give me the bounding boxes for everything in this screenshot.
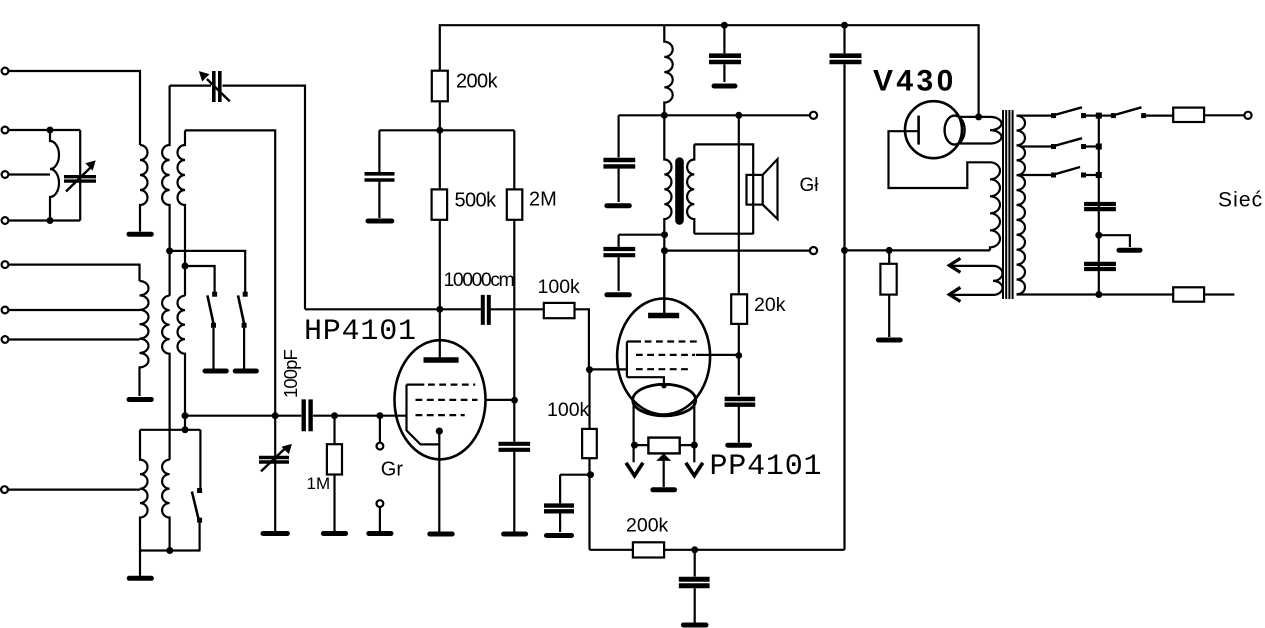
- ground G1 below T1 primary: [129, 232, 151, 237]
- HP anode bar: [424, 357, 459, 362]
- terminal A5: [2, 261, 9, 268]
- wire CV1 vertical: [79, 130, 81, 221]
- terminal output low: [810, 247, 817, 254]
- capacitor C11 plates: [1084, 264, 1116, 269]
- mains bottom wire: [1017, 293, 1235, 295]
- ground G3: [129, 576, 151, 581]
- node B+ rail / C3: [841, 22, 848, 29]
- switch S4 contact: [1081, 173, 1086, 178]
- resistor 20k R7: [731, 294, 747, 324]
- HP grid row2 dashes: [416, 399, 478, 401]
- wire screen row: [379, 129, 514, 131]
- filament arrow right: [686, 463, 703, 476]
- svg-text:Sieć: Sieć: [1218, 189, 1263, 212]
- switch S3 blade: [1054, 138, 1082, 146]
- speaker driver box: [747, 175, 763, 205]
- node grid terminal: [376, 412, 383, 419]
- wire A1 to IF primary top: [9, 71, 140, 145]
- transformer core (3 lines): [1003, 110, 1013, 299]
- svg-text:1M: 1M: [307, 474, 331, 493]
- V430 anode bottom wire: [958, 142, 990, 144]
- wire box to ground: [139, 551, 141, 577]
- wire CV2 vertical: [274, 416, 276, 531]
- T1 secondary a (x=169.6, bumps left): [162, 86, 170, 296]
- wire A5 to tapped coil top: [9, 265, 140, 281]
- node R5 bottom: [587, 471, 594, 478]
- wire bus to S2: [1099, 114, 1111, 116]
- node antenna coil top: [47, 127, 54, 134]
- wire SA to ground: [212, 328, 214, 369]
- variable capacitor CV1 arrow: [66, 165, 93, 191]
- switch S3 pivot: [1051, 144, 1056, 149]
- tap loop 1: [950, 266, 1002, 281]
- tube HP4101 envelope: [395, 340, 486, 459]
- node return/heater row: [841, 247, 848, 254]
- wire S4 to bus: [1086, 174, 1099, 176]
- fuse F1: [1173, 108, 1204, 122]
- wire SC down: [199, 523, 201, 551]
- node bleeder top: [886, 247, 893, 254]
- wire A6 tap: [9, 309, 140, 311]
- ground G13: [607, 292, 629, 297]
- wire S3 to bus: [1086, 145, 1099, 147]
- filament winding (5 bumps right): [990, 162, 1000, 250]
- ground G12: [607, 203, 629, 208]
- PP anode bar: [648, 313, 679, 318]
- node output row: [661, 247, 668, 254]
- wire to PP grid: [590, 368, 627, 370]
- resistor 500k R2: [432, 189, 448, 219]
- wire A7 tap: [9, 338, 140, 340]
- lower box right side wire: [199, 430, 201, 488]
- wire C3 down to return row: [843, 64, 845, 550]
- node box top (x=185): [182, 426, 189, 433]
- switch S1 blade: [1054, 107, 1082, 115]
- tap arrow 2: [949, 287, 960, 301]
- node PP grid bias: [735, 352, 742, 359]
- svg-text:Gł: Gł: [800, 175, 820, 196]
- svg-text:100k: 100k: [538, 276, 581, 298]
- svg-text:10000cm: 10000cm: [444, 269, 514, 291]
- wire C7 to ground: [559, 514, 561, 533]
- mid coil L3a (x=169.6, bumps left): [162, 296, 170, 460]
- switch SA top contact: [212, 292, 217, 297]
- capacitor C9 plates: [725, 399, 756, 405]
- HP grid row2 lead to node: [485, 399, 515, 401]
- switch S2 blade: [1114, 107, 1142, 115]
- ground G8: [369, 531, 391, 536]
- node 20k top: [735, 112, 742, 119]
- HV winding (2 bumps right): [990, 117, 1002, 144]
- heater return wire: [845, 249, 991, 251]
- node B+ rail / C2: [721, 22, 728, 29]
- node antenna coil bottom: [47, 217, 54, 224]
- node box bottom (x=170.5): [166, 547, 173, 554]
- terminal A7 (tap): [2, 336, 9, 343]
- voltage selector bus: [1098, 116, 1100, 295]
- PP grid row2 lead to 20k node: [696, 354, 739, 356]
- switch SA bottom contact: [211, 323, 216, 328]
- wire C6 to ground: [513, 452, 515, 532]
- wire C1 to ground: [378, 182, 380, 218]
- mains tap wire 3: [1020, 174, 1051, 176]
- HP grid row3 dashes: [416, 414, 465, 416]
- capacitor 10000cm plates: [483, 295, 489, 325]
- terminal A4: [2, 217, 9, 224]
- capacitor C2 plates: [709, 56, 741, 62]
- capacitor C2 branch: [723, 25, 725, 53]
- trimmer feed wire: [170, 86, 305, 310]
- ground G11: [547, 533, 572, 538]
- V430 filament bar: [917, 116, 920, 145]
- HP cathode dot: [436, 428, 443, 435]
- wire R2 to anode node: [439, 220, 441, 358]
- output transformer secondary (x=694.3, bumps left): [687, 144, 694, 233]
- node rheostat right: [691, 442, 698, 449]
- node choke bottom: [661, 112, 668, 119]
- capacitor C8 plates: [679, 579, 710, 586]
- choke L5 (anode feed): [664, 25, 672, 115]
- wire 2M to grid node: [513, 220, 515, 442]
- wire to band switch SA: [185, 266, 215, 292]
- switch SB top contact: [243, 292, 248, 297]
- lower box bottom wire: [140, 549, 200, 551]
- wire to band switch SB: [170, 251, 246, 292]
- HP grid hook: [407, 385, 440, 445]
- wire fuse to mains terminal: [1204, 114, 1245, 116]
- variable capacitor CV2 arrow: [261, 446, 288, 472]
- node 100k junction: [586, 366, 593, 373]
- lower coil box top wire: [140, 429, 200, 431]
- node bus low: [1096, 172, 1102, 178]
- trimmer capacitor CT1 plates: [214, 71, 220, 102]
- wire cap C1 branch: [378, 130, 380, 172]
- wire R7 to node: [738, 324, 740, 395]
- B+ top rail: [440, 25, 979, 117]
- capacitor C10 plates: [1084, 204, 1116, 209]
- wire Gr2 to ground: [379, 507, 381, 531]
- PP filament lead right: [693, 401, 695, 462]
- PP anode lead: [663, 251, 665, 313]
- wire C8 branch: [694, 550, 696, 577]
- mains winding (12 bumps right): [1017, 116, 1026, 295]
- switch SC top contact: [197, 488, 202, 493]
- wire cap C7 branch: [559, 475, 561, 504]
- capacitor 100pF plates: [304, 399, 311, 431]
- terminal A3 (tap): [2, 171, 9, 178]
- capacitor C6 plates: [499, 444, 531, 450]
- capacitor C3 plates: [830, 56, 862, 62]
- wire SB to ground: [243, 328, 245, 369]
- variable capacitor CV1 plates: [64, 177, 96, 181]
- resistor 100k R5: [588, 370, 590, 429]
- wire C8 to ground: [694, 588, 696, 622]
- resistor 100k R4: [544, 303, 575, 318]
- resistor 200k R6: [633, 542, 664, 557]
- wire cap C5 branch: [619, 235, 665, 247]
- wire 20k column: [738, 115, 740, 294]
- ground G19: [878, 338, 900, 343]
- wire A4 to antenna coil bottom: [9, 219, 81, 221]
- tap arrow 1: [949, 258, 960, 272]
- resistor 2M R3: [507, 189, 523, 219]
- ground G5: [235, 369, 256, 374]
- terminal HT out: [810, 112, 817, 119]
- wire 100pF row: [185, 415, 407, 417]
- node anode column: [975, 113, 982, 120]
- wire R5 bottom row: [588, 458, 590, 550]
- PP filament lead left: [632, 401, 634, 462]
- wire R1 to node: [439, 101, 441, 189]
- switch S4 pivot: [1051, 173, 1056, 178]
- svg-text:200k: 200k: [626, 514, 669, 536]
- wire C5 to ground: [617, 257, 619, 291]
- svg-text:100k: 100k: [547, 399, 590, 421]
- trimmer CT1 arrow: [207, 79, 230, 101]
- PP cathode node dot: [661, 383, 666, 388]
- node 1M top: [331, 412, 338, 419]
- lower coil L4a (x=140, bumps right): [140, 430, 148, 551]
- wire cap C4 branch: [617, 115, 619, 157]
- PP grid row1: [627, 340, 697, 342]
- mains tap wire 2: [1020, 145, 1051, 147]
- node transformer/cap C5: [661, 231, 668, 238]
- node HP grid right: [511, 397, 518, 404]
- speaker feed wires: [694, 144, 753, 234]
- node C10/C11 mid: [1095, 232, 1102, 239]
- switch S3 contact: [1081, 144, 1086, 149]
- node bottom cap: [691, 546, 698, 553]
- tapped coil L2 (six bumps): [140, 281, 149, 396]
- terminal A2: [2, 127, 9, 134]
- switch S1 contact: [1081, 113, 1086, 118]
- ground G9: [430, 532, 452, 537]
- switch SB blade: [238, 295, 244, 324]
- wire C4 to ground bar: [617, 169, 619, 202]
- switch SC bottom contact: [197, 518, 202, 523]
- terminal A6 (tap): [2, 307, 9, 314]
- wire S1 to bus: [1086, 114, 1099, 116]
- wire coupling row: [305, 309, 589, 369]
- lower coil L4b (x=170.5, bumps left): [162, 460, 170, 551]
- filament arrow left: [626, 463, 643, 476]
- node 100pF left: [272, 412, 279, 419]
- svg-text:PP4101: PP4101: [710, 450, 823, 484]
- wire T1b top to grid column: [185, 130, 275, 415]
- wire C2 to ground bar: [723, 64, 725, 82]
- svg-text:HP4101: HP4101: [304, 315, 417, 349]
- ground G10: [504, 532, 526, 537]
- terminal mains: [1244, 112, 1251, 119]
- switch S4 blade: [1054, 167, 1080, 175]
- PP grid row3 dashes: [636, 368, 688, 370]
- HP grid row1: [407, 384, 476, 386]
- mid coil L3b (x=185, bumps left): [178, 296, 185, 430]
- ground G2 below L2: [129, 397, 151, 402]
- svg-text:100pF: 100pF: [280, 349, 301, 398]
- wire S2 to fuse: [1146, 114, 1173, 116]
- PP grid row2 dashes: [636, 354, 695, 356]
- svg-text:2M: 2M: [529, 189, 557, 211]
- mains tap wire top: [1017, 114, 1052, 116]
- ground G7: [323, 531, 345, 536]
- capacitor C3 branch: [843, 25, 845, 53]
- node bus mid: [1096, 144, 1102, 150]
- node anode/cap row: [436, 306, 443, 313]
- svg-text:20k: 20k: [754, 294, 786, 316]
- output transformer core (filled bar): [675, 157, 684, 225]
- switch SA blade: [207, 295, 213, 324]
- antenna coil L1 (two bumps): [50, 130, 59, 221]
- node switch feed B (x=169.6): [166, 247, 173, 254]
- grid terminal Gr stem: [379, 416, 381, 443]
- terminal A1 (aerial): [2, 68, 9, 75]
- T1 secondary b (x=185, bumps left): [178, 130, 185, 295]
- node at coil line (y=415.7): [182, 412, 189, 419]
- wire bottom return row: [590, 549, 845, 551]
- switch SC blade: [192, 492, 199, 520]
- svg-text:500k: 500k: [455, 190, 498, 212]
- V430 filament lead: [889, 131, 991, 188]
- ground G20: [1119, 248, 1140, 253]
- V430 anode ellipse: [945, 116, 965, 145]
- ground G4: [205, 369, 226, 374]
- ground G6: [263, 531, 287, 536]
- switch S1 pivot: [1051, 113, 1056, 118]
- HP cathode lead: [438, 431, 440, 531]
- switch SB bottom contact: [242, 323, 247, 328]
- svg-text:Gr: Gr: [381, 459, 404, 481]
- ground G15: [714, 84, 735, 89]
- tap loop 2: [950, 281, 1002, 295]
- rheostat wires: [635, 444, 695, 446]
- wire A8 to lower coil tap: [8, 489, 140, 491]
- node bus top: [1096, 113, 1102, 119]
- variable capacitor CV2 plates: [259, 458, 289, 463]
- terminal A8: [1, 486, 8, 493]
- HT row wire: [619, 114, 811, 116]
- capacitor C7 plates: [544, 506, 574, 512]
- rheostat arrow (up): [656, 454, 671, 461]
- resistor 1M: [333, 416, 335, 445]
- ground G17: [683, 623, 706, 628]
- speaker horn: [763, 159, 778, 219]
- terminal Gr2: [377, 500, 384, 507]
- wire output row to terminal: [665, 250, 811, 252]
- resistor bleeder R9: [888, 250, 890, 263]
- wire 2M branch down: [513, 130, 515, 189]
- terminal Gr: [377, 443, 384, 450]
- wire A2 to antenna coil top: [9, 129, 81, 131]
- V430 anode top wire: [958, 116, 990, 118]
- PP cathode dome: [633, 384, 696, 416]
- tube V430 envelope: [905, 101, 962, 158]
- PP grid hook: [627, 342, 664, 385]
- wire mid to ground: [1099, 235, 1130, 247]
- ground G18: [728, 443, 750, 448]
- capacitor C4 plates: [603, 160, 635, 166]
- svg-text:200k: 200k: [456, 71, 499, 93]
- ground G16: [653, 487, 675, 492]
- node switch feed A (x=185): [182, 263, 189, 270]
- resistor 200k R1: [432, 71, 448, 102]
- rheostat body: [648, 438, 679, 454]
- output transformer primary (x=664.3, bumps right): [664, 115, 671, 313]
- capacitor C1 plates: [365, 174, 395, 180]
- fuse F2: [1173, 287, 1204, 301]
- capacitor C5 plates: [603, 249, 635, 255]
- tube PP4101 envelope: [617, 299, 710, 415]
- wire C9 to ground: [738, 407, 740, 443]
- node screen divider: [436, 127, 443, 134]
- node bus bottom: [1095, 291, 1102, 298]
- IF transformer T1 primary (x=140, bumps right): [140, 145, 148, 232]
- ground G14: [368, 219, 392, 224]
- wire A3 tap: [9, 173, 50, 175]
- switch S2 pivot: [1111, 113, 1116, 118]
- svg-text:V430: V430: [873, 65, 957, 98]
- switch S2 contact: [1141, 113, 1146, 118]
- node rheostat left: [631, 442, 638, 449]
